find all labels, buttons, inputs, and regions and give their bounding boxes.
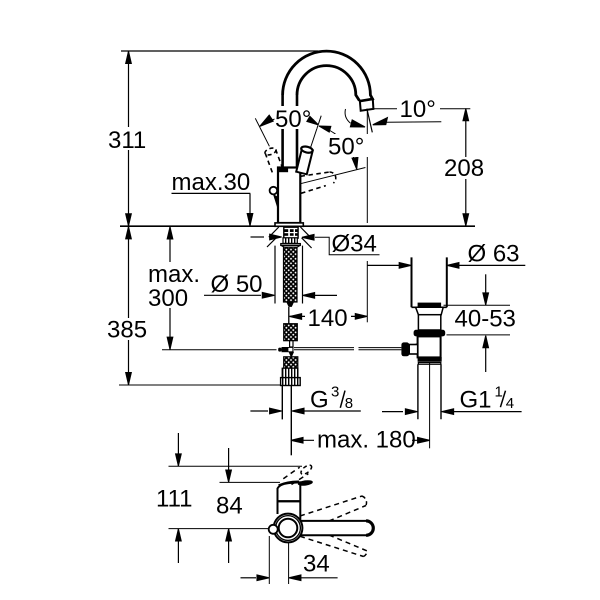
plan ext line axis <box>169 528 269 530</box>
svg-text:Ø 63: Ø 63 <box>468 241 520 268</box>
dim max180 label <box>314 429 412 451</box>
svg-text:40-53: 40-53 <box>455 306 516 333</box>
svg-text:max. 180: max. 180 <box>317 426 416 453</box>
popup rod left <box>294 348 354 350</box>
plan lever dashed cap <box>299 463 313 475</box>
dim D50 leader <box>204 294 261 296</box>
tee clamp <box>282 347 294 352</box>
G38 nut <box>281 378 301 386</box>
dim 40-53 label <box>452 311 514 330</box>
supply tube line <box>288 307 290 324</box>
plan swivel inner circle <box>279 519 298 538</box>
angle leader up <box>303 116 321 170</box>
dim 84 top <box>228 448 230 482</box>
plan swivel outer circle <box>274 514 303 543</box>
dim D50 arrow <box>262 293 274 299</box>
dim 140 right arrow <box>355 314 367 320</box>
angle leader left <box>255 118 269 146</box>
svg-text:385: 385 <box>107 317 147 344</box>
angle leader down <box>301 168 366 184</box>
plan lever grip <box>297 479 313 486</box>
plan lever bar arc <box>279 481 300 485</box>
dim 311 line <box>128 51 130 226</box>
svg-text:311: 311 <box>108 127 146 154</box>
svg-text:G1: G1 <box>460 386 492 413</box>
plan ext line mid <box>220 481 281 483</box>
10deg left arrow <box>350 120 365 127</box>
base plate <box>275 223 303 226</box>
escutcheon plate <box>281 244 301 246</box>
svg-text:Ø 50: Ø 50 <box>211 271 263 298</box>
lever dashed left <box>265 150 282 173</box>
svg-text:8: 8 <box>345 395 353 412</box>
dim 385 bottom extent line <box>119 384 281 386</box>
drain knob <box>401 342 409 356</box>
plan spout <box>301 521 374 535</box>
drain axis <box>429 362 431 448</box>
dim 208 top arrow <box>463 109 469 121</box>
dim D63 right <box>459 264 525 266</box>
dim 40-53 bottom <box>485 336 487 372</box>
dim 40-53 top <box>485 274 487 305</box>
dim D34 left arrow <box>251 236 265 238</box>
spout direction leg <box>367 109 372 133</box>
angle arc 50a <box>260 117 318 126</box>
dim max30 leader <box>249 193 251 226</box>
plan knob <box>269 525 278 534</box>
top extension line <box>121 50 318 52</box>
spout neck <box>283 95 297 168</box>
svg-text:50°: 50° <box>275 106 311 133</box>
svg-text:84: 84 <box>216 493 243 520</box>
dim G114 left arrow <box>382 411 403 413</box>
drain collar <box>416 307 444 314</box>
shank taper <box>286 302 294 307</box>
label 10deg <box>397 98 440 119</box>
svg-text:3: 3 <box>331 384 339 401</box>
dim 385 top arrow <box>126 227 132 239</box>
dim max180 right arrow <box>418 438 430 444</box>
supply pipe left edge <box>281 386 283 420</box>
dim G38 left arrow <box>250 410 268 412</box>
tee lower tip <box>289 352 293 356</box>
deck hatch left <box>267 227 279 247</box>
drain mid cylinder <box>418 315 440 330</box>
lever dashed right <box>301 172 330 193</box>
dim 111 bottom <box>177 529 179 563</box>
aerator band <box>359 99 371 101</box>
drain top cylinder <box>412 257 447 307</box>
label 50a <box>275 106 317 129</box>
dim max180 line <box>291 439 430 441</box>
svg-text:140: 140 <box>308 305 348 332</box>
dim D50 right arrow <box>303 293 315 299</box>
dim G114 right arrow <box>454 411 522 413</box>
dim 34 right arrow <box>301 577 338 579</box>
plan spout dashed up cap <box>362 496 367 506</box>
knurled nut <box>283 238 297 244</box>
plan ext line top <box>169 465 303 467</box>
lever solid cap <box>301 145 314 153</box>
dim 111 top <box>177 433 179 466</box>
angle arc 50b <box>319 126 357 169</box>
drain flange <box>418 357 442 361</box>
dim max300 line <box>169 227 171 350</box>
svg-text:G: G <box>310 387 329 414</box>
dim 34 ext lines <box>269 536 288 584</box>
dim max180 left arrow <box>291 438 303 444</box>
lever dashed right cap <box>330 172 336 183</box>
thread section <box>282 368 298 377</box>
counter deck line <box>120 225 475 227</box>
svg-text:300: 300 <box>148 285 188 312</box>
dim 140 left arrow <box>290 314 302 320</box>
dim 311 bottom arrow <box>126 214 132 226</box>
supply pipe right edge <box>290 386 292 456</box>
svg-text:1: 1 <box>495 383 503 400</box>
dim 385 label <box>105 318 148 340</box>
dim max30 arrow <box>247 214 253 226</box>
body <box>278 168 300 224</box>
dim 385 line <box>128 226 130 385</box>
svg-text:208: 208 <box>444 155 484 182</box>
svg-text:111: 111 <box>156 486 192 513</box>
drain knob connector <box>409 345 418 355</box>
svg-text:Ø34: Ø34 <box>332 231 377 258</box>
tee end cap <box>278 348 281 352</box>
dim 140 label <box>305 306 351 328</box>
svg-text:10°: 10° <box>400 96 436 123</box>
drain tailpipe <box>418 364 441 419</box>
body pivot mark <box>279 168 289 173</box>
dim max300 label <box>146 262 201 308</box>
popup rod right <box>359 348 402 350</box>
dim max300 top arrow <box>167 227 173 239</box>
plan body <box>278 482 301 520</box>
dim 208 bottom arrow <box>463 214 469 226</box>
arc 50a right arrow <box>307 116 318 124</box>
10deg right arrow <box>373 118 388 125</box>
arc 50b top arrow <box>319 126 331 132</box>
coupling knurl lower <box>284 357 298 368</box>
tee stem <box>290 341 293 347</box>
dim 208 line <box>465 108 467 226</box>
dim 208 label <box>442 157 486 179</box>
plan swivel ring <box>276 516 301 541</box>
dim max30 underline <box>172 192 251 194</box>
svg-text:max.: max. <box>148 261 200 288</box>
dim D34 leader <box>315 237 380 254</box>
lever dashed left cap <box>264 147 277 157</box>
dim 40-53 ext lines <box>444 305 511 335</box>
deck hatch right <box>300 227 311 248</box>
popup knob <box>270 187 278 195</box>
svg-text:max.30: max.30 <box>172 169 251 196</box>
svg-text:34: 34 <box>303 551 330 578</box>
popup rod extension <box>162 349 277 351</box>
threaded shank <box>284 247 298 302</box>
stream axis line <box>366 111 368 224</box>
dim G38 right arrow <box>304 410 361 412</box>
dim 311 label <box>106 127 148 150</box>
escutcheon flare <box>281 246 300 248</box>
plan lever dashed <box>283 467 308 484</box>
10deg ref line upper <box>374 108 470 110</box>
drain gasket <box>418 303 442 308</box>
coupling knurl upper <box>284 324 298 341</box>
plan spout dashed down cap <box>364 551 368 557</box>
arc 50a left arrow <box>260 115 273 126</box>
drain body <box>418 336 441 357</box>
lever solid <box>296 148 313 175</box>
dim 140 line <box>290 315 368 317</box>
plan spout cap bold <box>366 521 373 535</box>
arc 50b bottom arrow <box>352 157 358 169</box>
dim D34 right arrow <box>302 235 314 241</box>
10deg ref line lower <box>386 121 441 124</box>
label 50b <box>327 134 370 157</box>
drain lower gasket <box>414 330 446 337</box>
dim 385 bottom arrow <box>126 373 132 385</box>
drain boss <box>413 344 417 353</box>
ext line 140/D63 <box>366 261 368 322</box>
plan spout dashed up <box>300 496 366 521</box>
plan body joint <box>278 500 301 502</box>
svg-text:50°: 50° <box>328 134 364 161</box>
escutcheon sides <box>275 246 303 304</box>
dim D63 left <box>367 264 400 266</box>
spout outer arc <box>283 51 374 100</box>
dim 311 top arrow <box>126 51 132 63</box>
svg-text:4: 4 <box>506 395 514 412</box>
dim 84 bottom <box>228 529 230 563</box>
plan spout dashed down <box>300 535 367 557</box>
popup knob stem <box>273 194 278 209</box>
shank upper <box>284 227 298 238</box>
spout inner arc <box>297 66 359 101</box>
10deg arc <box>345 109 350 123</box>
dim max300 bottom arrow <box>167 337 173 349</box>
dim 34 left arrow <box>241 577 257 579</box>
aerator box <box>360 99 374 110</box>
